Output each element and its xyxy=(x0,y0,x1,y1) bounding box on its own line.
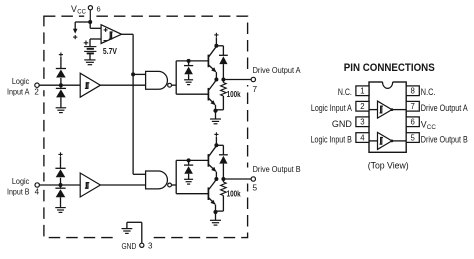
svg-text:Logic Input B: Logic Input B xyxy=(311,135,352,145)
svg-text:Logic: Logic xyxy=(12,177,29,186)
op-amp U1 UVLO comparator xyxy=(101,25,121,44)
label N.C. (pin 1) xyxy=(338,87,352,97)
pin 2 Logic Input A terminal xyxy=(7,77,39,97)
label Logic Input A (pin 2) xyxy=(311,103,352,113)
wire UVLO output bus xyxy=(122,34,146,174)
pin box 5 (right) xyxy=(406,133,419,143)
node bracket B xyxy=(187,158,191,162)
internal bias arrow (from VCC) xyxy=(73,22,90,39)
svg-text:N.C.: N.C. xyxy=(421,87,436,97)
ground (pin 3) xyxy=(122,229,133,234)
pin 6 VCC terminal xyxy=(71,4,101,22)
node input B xyxy=(59,183,63,187)
svg-text:N.C.: N.C. xyxy=(338,87,352,97)
VCC tie (stage A) xyxy=(214,33,218,46)
NAND gate A xyxy=(146,71,172,89)
DIP notch xyxy=(383,81,393,88)
node stage B VCC xyxy=(214,143,218,147)
pin box 1 (left) xyxy=(356,86,369,96)
resistor 100k B xyxy=(216,179,241,211)
svg-text:Drive Output A: Drive Output A xyxy=(253,65,301,75)
diode input B clamp to VCC xyxy=(55,168,65,185)
ground (clamp A) xyxy=(184,80,193,85)
ground (input A clamp) xyxy=(56,108,67,113)
svg-text:3: 3 xyxy=(360,118,364,127)
diode clamp A (base node) xyxy=(184,61,193,80)
node input A xyxy=(59,83,63,87)
svg-text:CC: CC xyxy=(427,124,437,131)
diode clamp B (base node) xyxy=(184,160,193,179)
wire comparator - input to reference xyxy=(90,39,101,47)
ground (clamp B) xyxy=(184,179,193,184)
transistor Q2 (sink) xyxy=(208,80,216,119)
pin box 6 (right) xyxy=(406,117,419,127)
label Drive Output B (pin 5) xyxy=(421,135,468,145)
wire output B xyxy=(223,178,251,180)
pin box 7 (right) xyxy=(406,101,419,111)
ground (stage B) xyxy=(210,220,221,225)
wire output A xyxy=(223,79,251,81)
node emitter B xyxy=(213,210,217,214)
svg-text:1: 1 xyxy=(360,87,364,96)
diode input B clamp to GND xyxy=(55,185,65,207)
VCC tie (input A clamp) xyxy=(59,53,63,69)
label Drive Output A (pin 7) xyxy=(421,103,468,113)
svg-text:5: 5 xyxy=(411,133,416,142)
node stage A VCC xyxy=(214,44,218,48)
svg-text:4: 4 xyxy=(360,133,365,142)
wire input B xyxy=(39,184,80,186)
DIP buffer A xyxy=(369,101,406,118)
buffer A (Schmitt input) xyxy=(80,73,100,97)
transistor Q4 (sink) xyxy=(208,179,216,220)
IC boundary dashed box xyxy=(41,14,251,241)
label N.C. (pin 8) xyxy=(421,87,436,97)
svg-text:Drive Output A: Drive Output A xyxy=(421,103,468,113)
svg-text:3: 3 xyxy=(148,241,153,250)
wire NAND B output xyxy=(172,184,177,186)
svg-text:2: 2 xyxy=(360,102,364,111)
label Logic Input B (pin 4) xyxy=(311,135,352,145)
pin box 4 (left) xyxy=(356,133,369,143)
caption (Top View) xyxy=(368,160,409,170)
pin box 8 (right) xyxy=(406,86,419,96)
svg-text:Drive Output B: Drive Output B xyxy=(421,135,468,145)
svg-text:Drive Output B: Drive Output B xyxy=(253,164,301,174)
pin 3 GND terminal xyxy=(122,222,153,251)
svg-text:7: 7 xyxy=(252,84,257,94)
ground (input B clamp) xyxy=(55,208,66,213)
svg-text:7: 7 xyxy=(411,102,415,111)
wire VCC to comparator + input xyxy=(90,22,101,28)
svg-text:V: V xyxy=(71,4,77,14)
ground (battery) xyxy=(84,60,95,65)
svg-text:GND: GND xyxy=(122,241,137,251)
resistor 100k A xyxy=(216,80,241,110)
svg-text:6: 6 xyxy=(411,118,415,127)
svg-text:Input A: Input A xyxy=(7,87,30,96)
label VCC (pin 6) xyxy=(421,119,437,131)
transistor Q1 (source) xyxy=(208,46,216,79)
svg-text:5.7V: 5.7V xyxy=(103,46,117,56)
ground (stage A) xyxy=(210,119,221,124)
node on UVLO bus xyxy=(131,72,135,76)
svg-text:CC: CC xyxy=(77,10,86,16)
VCC tie (stage B) xyxy=(214,132,218,145)
node output B xyxy=(214,177,225,181)
svg-text:GND: GND xyxy=(332,119,352,129)
node emitter A xyxy=(213,109,217,113)
svg-text:4: 4 xyxy=(35,188,40,197)
wire buffer B output xyxy=(100,184,145,186)
wire buffer A output xyxy=(100,84,145,86)
pin 4 Logic Input B terminal xyxy=(7,177,40,197)
wire input A xyxy=(39,84,80,86)
battery 5.7V reference xyxy=(84,41,118,60)
pin box 2 (left) xyxy=(356,101,369,111)
diode output A to VCC xyxy=(216,46,227,80)
svg-text:100k: 100k xyxy=(227,189,241,199)
DIP buffer B xyxy=(369,132,406,149)
diode input A clamp to GND xyxy=(56,85,66,107)
buffer B (Schmitt input) xyxy=(80,173,100,197)
svg-text:100k: 100k xyxy=(227,89,241,99)
svg-text:Logic Input A: Logic Input A xyxy=(311,103,352,113)
VCC tie (input B clamp) xyxy=(58,152,62,168)
wire NAND A output xyxy=(172,84,177,86)
node output A xyxy=(214,78,225,82)
svg-text:6: 6 xyxy=(97,4,101,13)
title PIN CONNECTIONS xyxy=(344,62,435,74)
wire drive bracket B xyxy=(176,160,208,193)
NAND gate B xyxy=(146,171,172,189)
pin 7 Drive Output A terminal xyxy=(251,65,301,94)
diode output B to VCC xyxy=(216,145,227,179)
diode input A clamp to VCC xyxy=(56,69,66,86)
svg-text:(Top View): (Top View) xyxy=(368,160,409,170)
transistor Q3 (source) xyxy=(208,146,216,179)
svg-text:8: 8 xyxy=(411,87,415,96)
svg-text:PIN CONNECTIONS: PIN CONNECTIONS xyxy=(344,62,435,74)
node bracket A xyxy=(187,59,191,63)
svg-text:Logic: Logic xyxy=(12,77,29,86)
pin 5 Drive Output B terminal xyxy=(251,164,301,193)
svg-text:2: 2 xyxy=(34,88,39,97)
label GND (pin 3) xyxy=(332,119,352,129)
node: VCC junction xyxy=(88,20,92,24)
svg-text:Input B: Input B xyxy=(7,188,30,197)
wire drive bracket A xyxy=(176,61,208,94)
pin box 3 (left) xyxy=(356,117,369,127)
DIP package body xyxy=(369,82,406,152)
svg-text:5: 5 xyxy=(252,183,257,193)
